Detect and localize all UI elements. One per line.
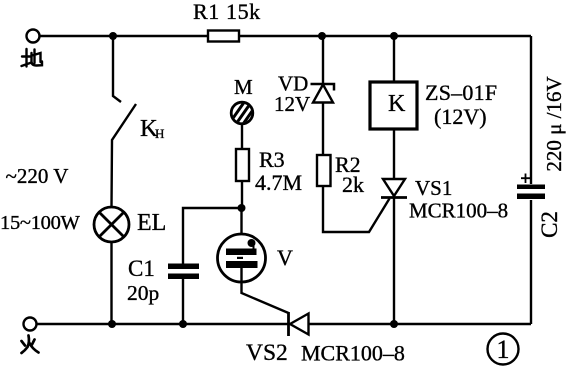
svg-text:EL: EL <box>137 210 166 236</box>
svg-text:MCR100–8: MCR100–8 <box>409 199 508 223</box>
svg-text:1: 1 <box>497 335 510 364</box>
svg-text:C2: C2 <box>537 211 562 238</box>
svg-text:VS1: VS1 <box>415 176 452 200</box>
svg-text:K: K <box>388 91 406 117</box>
svg-text:VS2: VS2 <box>246 340 288 366</box>
svg-text:H: H <box>155 126 164 141</box>
svg-text:M: M <box>234 75 253 99</box>
svg-text:ZS–01F: ZS–01F <box>425 80 497 105</box>
svg-text:~220 V: ~220 V <box>6 164 69 188</box>
svg-text:R1 15k: R1 15k <box>193 0 261 24</box>
svg-text:V: V <box>277 245 293 270</box>
svg-text:20p: 20p <box>127 281 159 305</box>
svg-text:C1: C1 <box>128 256 155 281</box>
svg-text:220 μ /16V: 220 μ /16V <box>542 76 566 171</box>
svg-text:R3: R3 <box>259 147 285 172</box>
svg-text:12V: 12V <box>274 92 310 116</box>
svg-text:(12V): (12V) <box>434 104 487 129</box>
svg-text:4.7M: 4.7M <box>255 170 302 195</box>
svg-text:2k: 2k <box>342 172 364 197</box>
svg-text:15~100W: 15~100W <box>0 212 81 234</box>
svg-text:MCR100–8: MCR100–8 <box>301 341 405 366</box>
